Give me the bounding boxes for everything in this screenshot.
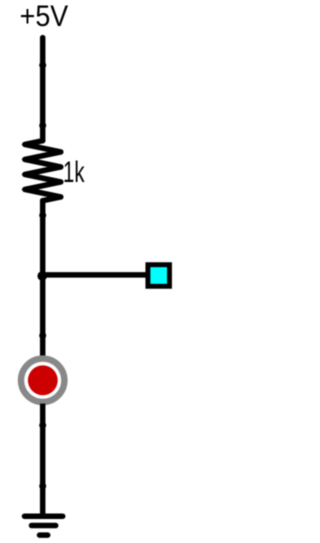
junction node dot (37, 271, 47, 281)
ground symbol (25, 516, 63, 535)
svg-text:+5V: +5V (20, 1, 69, 33)
wire from +5V rail to resistor top post (39, 38, 46, 129)
wire from LED cathode post to ground lead (39, 425, 46, 514)
LED D1 (lit, red) (21, 336, 64, 429)
wire from junction to output terminal (42, 272, 148, 278)
resistor R1 (zigzag body) (21, 126, 62, 219)
svg-text:1k: 1k (63, 156, 85, 189)
wire from junction to LED anode post (39, 275, 46, 339)
output terminal pin (cyan square) (148, 265, 170, 287)
wire from resistor bottom post to junction node (40, 215, 46, 275)
